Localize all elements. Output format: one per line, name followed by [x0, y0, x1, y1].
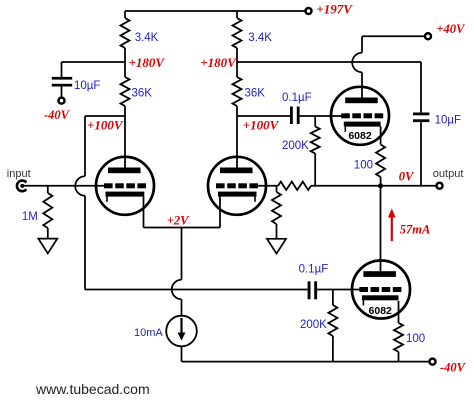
svg-text:output: output [433, 168, 464, 180]
svg-text:36K: 36K [132, 87, 153, 99]
svg-text:-40V: -40V [440, 361, 467, 375]
svg-text:200K: 200K [282, 140, 309, 152]
svg-text:+2V: +2V [167, 214, 190, 228]
svg-text:+100V: +100V [243, 118, 280, 133]
svg-text:10mA: 10mA [134, 327, 163, 339]
svg-text:input: input [7, 168, 31, 180]
svg-text:www.tubecad.com: www.tubecad.com [35, 381, 150, 397]
svg-text:100: 100 [354, 160, 373, 172]
svg-text:6082: 6082 [348, 130, 372, 142]
svg-text:1M: 1M [22, 211, 38, 223]
svg-text:100: 100 [406, 333, 425, 345]
svg-text:6082: 6082 [369, 305, 393, 317]
svg-text:+180V: +180V [129, 55, 166, 70]
svg-text:+180V: +180V [200, 55, 237, 70]
svg-text:10µF: 10µF [74, 80, 100, 92]
svg-text:3.4K: 3.4K [135, 32, 159, 44]
svg-text:-40V: -40V [44, 108, 71, 122]
svg-text:3.4K: 3.4K [248, 32, 272, 44]
svg-text:0V: 0V [399, 170, 415, 184]
svg-text:10µF: 10µF [435, 114, 461, 126]
svg-text:57mA: 57mA [400, 222, 431, 236]
svg-text:36K: 36K [245, 87, 266, 99]
svg-text:+100V: +100V [87, 118, 124, 133]
svg-text:+40V: +40V [436, 22, 466, 36]
svg-text:0.1µF: 0.1µF [282, 92, 312, 104]
svg-text:0.1µF: 0.1µF [299, 263, 329, 275]
svg-text:200K: 200K [300, 319, 327, 331]
svg-text:+197V: +197V [316, 1, 353, 16]
